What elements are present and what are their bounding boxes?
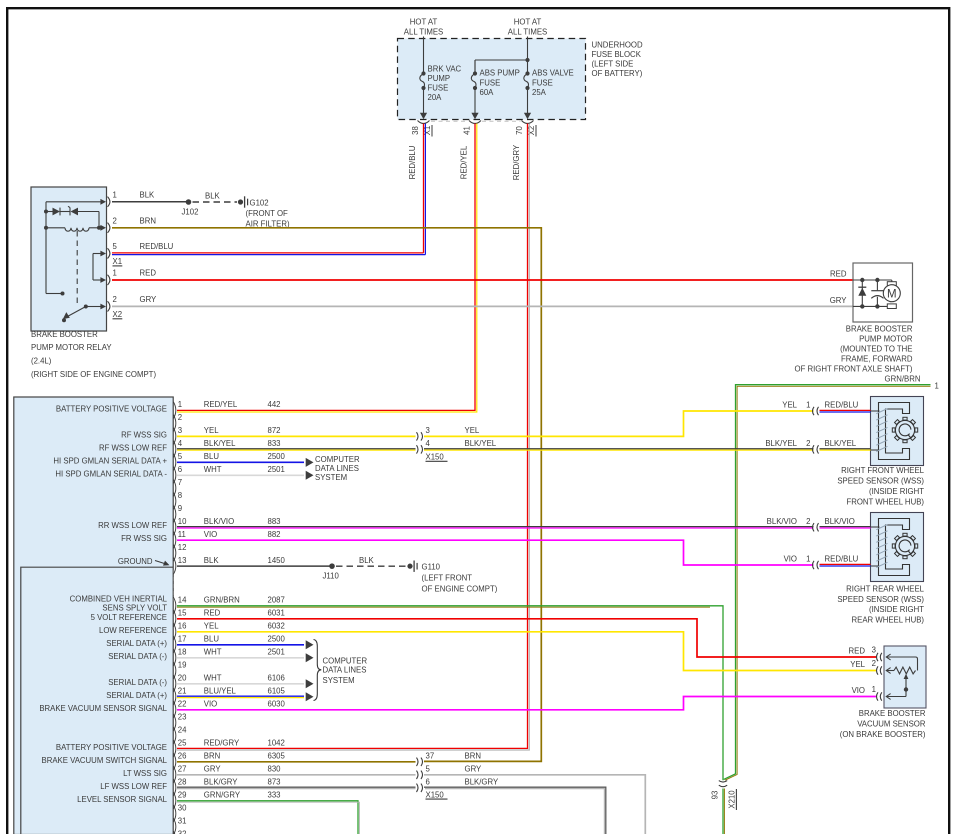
svg-text:27: 27 <box>178 765 187 774</box>
svg-text:(INSIDE RIGHT: (INSIDE RIGHT <box>869 605 924 614</box>
svg-text:RED/BLU: RED/BLU <box>140 242 174 251</box>
svg-text:BLK/YEL: BLK/YEL <box>765 439 797 448</box>
svg-text:6032: 6032 <box>268 622 285 631</box>
svg-text:7: 7 <box>178 478 182 487</box>
svg-text:X2: X2 <box>527 126 536 136</box>
svg-text:6: 6 <box>178 465 182 474</box>
module pin 19 <box>173 662 175 679</box>
svg-text:1: 1 <box>806 555 810 564</box>
svg-text:BLK/VIO: BLK/VIO <box>767 517 797 526</box>
svg-text:5: 5 <box>113 242 118 251</box>
svg-text:6031: 6031 <box>268 609 285 618</box>
svg-text:BLK: BLK <box>140 190 156 199</box>
wire RED/BLU connector to RF WSS <box>820 409 871 411</box>
svg-text:17: 17 <box>178 635 187 644</box>
svg-text:HOT AT: HOT AT <box>410 18 438 27</box>
svg-text:BLK/GRY: BLK/GRY <box>204 778 238 787</box>
svg-text:VACUUM SENSOR: VACUUM SENSOR <box>857 720 926 729</box>
svg-text:G110: G110 <box>422 563 441 572</box>
module pin 27 <box>173 766 175 783</box>
svg-text:OF RIGHT FRONT AXLE SHAFT): OF RIGHT FRONT AXLE SHAFT) <box>795 365 913 374</box>
computer data lines brace (lower) <box>314 640 322 701</box>
svg-text:4: 4 <box>178 439 183 448</box>
right front wheel speed sensor box <box>871 397 924 466</box>
pump motor diode <box>861 280 863 306</box>
svg-text:X1: X1 <box>423 126 432 136</box>
svg-text:VIO: VIO <box>204 700 217 709</box>
fuse block pin 38 X1 <box>418 121 430 124</box>
module pin 26 <box>173 753 175 770</box>
svg-text:BRK VAC: BRK VAC <box>428 64 462 73</box>
svg-text:(MOUNTED TO THE: (MOUNTED TO THE <box>840 345 912 354</box>
svg-text:BRAKE BOOSTER: BRAKE BOOSTER <box>31 330 98 339</box>
right rear wheel speed sensor box <box>871 513 924 582</box>
svg-text:1: 1 <box>113 269 117 278</box>
svg-text:(INSIDE RIGHT: (INSIDE RIGHT <box>869 487 924 496</box>
relay internal wire top (pin 1) <box>46 201 101 203</box>
svg-text:DATA LINES: DATA LINES <box>315 464 359 473</box>
svg-text:6106: 6106 <box>268 674 285 683</box>
module pin 22 <box>173 701 175 718</box>
module pin 13 <box>173 558 175 575</box>
svg-text:21: 21 <box>178 687 187 696</box>
svg-text:(LEFT FRONT: (LEFT FRONT <box>422 574 473 583</box>
svg-text:10: 10 <box>178 517 187 526</box>
wire BRN relay pin2 to X150 pin37 <box>112 228 541 762</box>
svg-text:VIO: VIO <box>204 530 217 539</box>
svg-text:333: 333 <box>268 791 281 800</box>
svg-text:2500: 2500 <box>268 635 286 644</box>
svg-text:SYSTEM: SYSTEM <box>315 473 347 482</box>
module pin 31 <box>173 818 175 835</box>
svg-text:22: 22 <box>178 700 187 709</box>
module pin 24 <box>173 727 175 744</box>
fuse block pin 41 <box>469 121 481 124</box>
svg-text:20A: 20A <box>428 93 443 102</box>
svg-text:16: 16 <box>178 622 187 631</box>
svg-text:FRONT WHEEL HUB): FRONT WHEEL HUB) <box>846 497 924 506</box>
svg-text:COMPUTER: COMPUTER <box>315 455 360 464</box>
svg-text:X150: X150 <box>426 790 445 799</box>
module inner box dashed edge <box>172 570 174 601</box>
svg-text:SPEED SENSOR (WSS): SPEED SENSOR (WSS) <box>837 477 924 486</box>
module pin 17 <box>173 636 175 653</box>
wire GRY relay X2-2 to pump motor <box>112 305 853 307</box>
wire BLK/YEL X150 to RF WSS <box>424 448 814 450</box>
svg-text:19: 19 <box>178 661 187 670</box>
svg-text:RIGHT FRONT WHEEL: RIGHT FRONT WHEEL <box>841 466 925 475</box>
svg-text:RED/YEL: RED/YEL <box>204 400 238 409</box>
svg-text:(LEFT SIDE: (LEFT SIDE <box>592 60 634 69</box>
svg-text:GRN/BRN: GRN/BRN <box>885 375 921 384</box>
svg-text:SENS SPLY VOLT: SENS SPLY VOLT <box>102 604 167 613</box>
svg-text:SYSTEM: SYSTEM <box>323 676 355 685</box>
svg-text:(FRONT OF: (FRONT OF <box>246 209 289 218</box>
svg-text:RED: RED <box>204 609 221 618</box>
pump motor capacitor <box>876 280 878 290</box>
svg-text:FR WSS SIG: FR WSS SIG <box>121 534 167 543</box>
svg-text:X150: X150 <box>426 453 445 462</box>
svg-text:RED/GRY: RED/GRY <box>512 144 521 180</box>
wire RED/BLU connector to RR WSS <box>820 563 871 565</box>
svg-text:RF WSS SIG: RF WSS SIG <box>121 430 167 439</box>
svg-text:BLK: BLK <box>204 556 220 565</box>
svg-text:5: 5 <box>426 765 431 774</box>
module pin 29 <box>173 792 175 809</box>
module pin 12 <box>173 545 175 562</box>
svg-text:2: 2 <box>178 413 182 422</box>
relay jumper pin5 to pinX2-1 <box>93 253 101 255</box>
fuse ABS VALVE FUSE 25A <box>527 37 529 74</box>
wire BLK/VIO connector to RR WSS <box>820 526 871 528</box>
RF WSS connector pin 2 <box>813 445 815 453</box>
svg-text:882: 882 <box>268 530 281 539</box>
svg-text:HI SPD GMLAN SERIAL DATA +: HI SPD GMLAN SERIAL DATA + <box>53 456 167 465</box>
svg-text:ABS PUMP: ABS PUMP <box>480 69 520 78</box>
svg-text:2: 2 <box>806 439 810 448</box>
svg-text:6: 6 <box>426 778 430 787</box>
svg-text:1: 1 <box>806 401 810 410</box>
module pin 16 <box>173 623 175 640</box>
svg-text:YEL: YEL <box>204 426 219 435</box>
ground G110 <box>407 564 412 569</box>
connector X150 pins 3,4 <box>417 432 419 440</box>
svg-text:VIO: VIO <box>784 555 797 564</box>
module inner box <box>21 567 173 834</box>
svg-text:YEL: YEL <box>204 622 219 631</box>
svg-text:1: 1 <box>113 190 117 199</box>
svg-text:PUMP MOTOR: PUMP MOTOR <box>859 335 913 344</box>
wire GRN/BRN below X210 <box>722 789 724 835</box>
svg-text:2501: 2501 <box>268 648 285 657</box>
module pin 6 <box>173 467 175 484</box>
svg-text:HOT AT: HOT AT <box>514 18 542 27</box>
svg-text:41: 41 <box>462 126 471 135</box>
svg-text:GRN/BRN: GRN/BRN <box>204 596 240 605</box>
module pin 23 <box>173 714 175 731</box>
svg-text:VIO: VIO <box>852 686 865 695</box>
svg-text:873: 873 <box>268 778 281 787</box>
module pin 4 <box>173 441 175 458</box>
svg-text:YEL: YEL <box>782 401 797 410</box>
svg-text:93: 93 <box>711 791 720 800</box>
svg-text:PUMP MOTOR RELAY: PUMP MOTOR RELAY <box>31 343 112 352</box>
svg-text:29: 29 <box>178 791 187 800</box>
wire WHT module pin 18 (computer data) <box>177 657 304 659</box>
svg-text:BLK/YEL: BLK/YEL <box>204 439 236 448</box>
svg-text:6105: 6105 <box>268 687 286 696</box>
pump motor box <box>853 263 913 322</box>
wire BLK/VIO module pin 10 to RR WSS <box>177 526 814 528</box>
svg-text:24: 24 <box>178 726 187 735</box>
fuse BRK VAC PUMP FUSE 20A <box>423 37 425 74</box>
svg-text:(ON BRAKE BOOSTER): (ON BRAKE BOOSTER) <box>840 730 926 739</box>
svg-text:RIGHT REAR WHEEL: RIGHT REAR WHEEL <box>846 584 924 593</box>
wire YEL X150 to RF WSS <box>424 411 814 436</box>
module pin 15 <box>173 610 175 627</box>
svg-text:OF ENGINE COMPT): OF ENGINE COMPT) <box>422 585 498 594</box>
svg-text:25: 25 <box>178 739 187 748</box>
svg-text:FUSE: FUSE <box>428 84 449 93</box>
wire BLK dashed to G110 <box>336 565 407 567</box>
svg-text:PUMP: PUMP <box>428 74 451 83</box>
svg-text:2500: 2500 <box>268 452 286 461</box>
svg-text:70: 70 <box>515 126 524 135</box>
relay coil <box>44 226 48 230</box>
module pin 30 <box>173 805 175 822</box>
wire WHT module pin 6 (computer data) <box>177 474 304 476</box>
module pin 7 <box>173 480 175 497</box>
svg-text:5 VOLT REFERENCE: 5 VOLT REFERENCE <box>91 613 167 622</box>
svg-text:2: 2 <box>872 659 876 668</box>
svg-text:3: 3 <box>178 426 182 435</box>
svg-text:GRY: GRY <box>140 295 158 304</box>
svg-text:BLU/YEL: BLU/YEL <box>204 687 237 696</box>
svg-text:LF WSS LOW REF: LF WSS LOW REF <box>100 782 167 791</box>
svg-text:BRAKE BOOSTER: BRAKE BOOSTER <box>859 709 926 718</box>
svg-text:SERIAL DATA (+): SERIAL DATA (+) <box>106 639 167 648</box>
module pin 28 <box>173 779 175 796</box>
svg-text:BLK/YEL: BLK/YEL <box>825 439 857 448</box>
svg-text:LEVEL SENSOR SIGNAL: LEVEL SENSOR SIGNAL <box>77 795 168 804</box>
wire GRN/BRN module pin 14 to X210 <box>177 606 723 780</box>
svg-text:FUSE: FUSE <box>480 78 501 87</box>
wire VIO module pin 22 to vacuum sensor pin1 <box>177 697 877 710</box>
module pin 18 <box>173 649 175 666</box>
svg-text:RED/BLU: RED/BLU <box>408 145 417 179</box>
svg-text:1042: 1042 <box>268 739 285 748</box>
svg-text:BRAKE VACUUM SENSOR SIGNAL: BRAKE VACUUM SENSOR SIGNAL <box>39 704 167 713</box>
svg-text:FUSE BLOCK: FUSE BLOCK <box>592 50 642 59</box>
svg-text:BATTERY POSITIVE VOLTAGE: BATTERY POSITIVE VOLTAGE <box>56 743 167 752</box>
svg-text:31: 31 <box>178 817 187 826</box>
svg-text:13: 13 <box>178 556 187 565</box>
wire RED module pin 15 to vacuum sensor pin3 <box>177 619 877 657</box>
svg-text:2501: 2501 <box>268 465 285 474</box>
svg-text:GRY: GRY <box>204 765 222 774</box>
svg-text:UNDERHOOD: UNDERHOOD <box>592 41 643 50</box>
connector X210 pin 93 <box>719 781 727 783</box>
svg-text:FRAME, FORWARD: FRAME, FORWARD <box>841 355 913 364</box>
module pin 32 <box>173 831 175 839</box>
svg-text:ALL TIMES: ALL TIMES <box>508 28 547 37</box>
svg-text:BLK: BLK <box>205 192 221 201</box>
svg-text:2: 2 <box>113 295 117 304</box>
pump motor rails <box>853 279 892 281</box>
svg-text:3: 3 <box>872 646 876 655</box>
wire RED/YEL fuse 41 to module pin 1 <box>177 124 475 411</box>
svg-text:YEL: YEL <box>850 660 865 669</box>
svg-text:SERIAL DATA (-): SERIAL DATA (-) <box>108 652 167 661</box>
svg-text:883: 883 <box>268 517 281 526</box>
svg-text:833: 833 <box>268 439 281 448</box>
svg-text:30: 30 <box>178 804 187 813</box>
module pin 20 <box>173 675 175 692</box>
svg-text:BRN: BRN <box>204 752 220 761</box>
wire BLU module pin 5 (computer data) <box>177 461 304 463</box>
svg-text:28: 28 <box>178 778 187 787</box>
module pin 14 <box>173 597 175 614</box>
svg-text:OF BATTERY): OF BATTERY) <box>592 69 643 78</box>
relay actuator dashed link <box>76 231 78 303</box>
module pin 10 <box>173 519 175 536</box>
svg-text:SERIAL DATA (+): SERIAL DATA (+) <box>106 691 167 700</box>
module pin 2 <box>173 415 175 432</box>
svg-text:GRN/GRY: GRN/GRY <box>204 791 241 800</box>
svg-text:11: 11 <box>178 530 186 539</box>
svg-text:BLU: BLU <box>204 635 220 644</box>
relay diode pair <box>44 210 48 214</box>
wire RED/GRY fuse 70 to module pin 25 <box>177 124 528 749</box>
svg-text:RED: RED <box>849 647 866 656</box>
relay box: brake booster pump motor relay <box>31 187 107 331</box>
svg-text:14: 14 <box>178 596 187 605</box>
svg-text:1: 1 <box>935 381 939 390</box>
svg-text:15: 15 <box>178 609 187 618</box>
svg-text:SPEED SENSOR (WSS): SPEED SENSOR (WSS) <box>837 595 924 604</box>
svg-text:ABS VALVE: ABS VALVE <box>532 69 574 78</box>
svg-text:5: 5 <box>178 452 183 461</box>
svg-text:LT WSS SIG: LT WSS SIG <box>123 769 167 778</box>
svg-text:LOW REFERENCE: LOW REFERENCE <box>99 626 167 635</box>
module pin 9 <box>173 506 175 523</box>
svg-text:BRN: BRN <box>140 216 156 225</box>
svg-text:COMPUTER: COMPUTER <box>323 656 368 665</box>
module pin 3 <box>173 428 175 445</box>
svg-text:ALL TIMES: ALL TIMES <box>404 28 443 37</box>
svg-text:FUSE: FUSE <box>532 78 553 87</box>
svg-text:RED/GRY: RED/GRY <box>204 739 240 748</box>
svg-text:BRN: BRN <box>465 752 481 761</box>
wire WHT module pin 20 (computer data) <box>177 683 304 685</box>
splice J110 <box>329 563 335 569</box>
ground G102 <box>238 199 243 204</box>
fuse block pin 70 X2 <box>522 121 534 124</box>
svg-text:RED: RED <box>830 270 847 279</box>
svg-text:RR WSS LOW REF: RR WSS LOW REF <box>98 521 167 530</box>
svg-text:37: 37 <box>426 752 435 761</box>
module pin 21 <box>173 688 175 705</box>
svg-text:RED/YEL: RED/YEL <box>459 145 468 179</box>
svg-text:SERIAL DATA (-): SERIAL DATA (-) <box>108 678 167 687</box>
svg-text:WHT: WHT <box>204 648 222 657</box>
svg-text:X2: X2 <box>113 310 123 319</box>
svg-text:BRAKE VACUUM SWITCH SIGNAL: BRAKE VACUUM SWITCH SIGNAL <box>42 756 168 765</box>
svg-text:RED: RED <box>140 269 157 278</box>
svg-text:REAR WHEEL HUB): REAR WHEEL HUB) <box>852 616 925 625</box>
svg-text:1450: 1450 <box>268 556 286 565</box>
svg-text:YEL: YEL <box>465 426 480 435</box>
svg-text:RED/BLU: RED/BLU <box>825 555 859 564</box>
svg-text:M: M <box>887 288 897 300</box>
underhood fuse block box <box>398 39 586 120</box>
svg-text:RED/BLU: RED/BLU <box>825 401 859 410</box>
connector X150 pins 37,5,6 <box>417 758 419 766</box>
relay pin brackets <box>108 197 110 207</box>
svg-text:X210: X210 <box>728 790 737 809</box>
wire YEL module pin 16 to vacuum sensor pin2 <box>177 632 877 671</box>
svg-text:442: 442 <box>268 400 281 409</box>
svg-text:GROUND: GROUND <box>118 557 153 566</box>
svg-text:872: 872 <box>268 426 281 435</box>
svg-text:4: 4 <box>426 439 431 448</box>
svg-text:X1: X1 <box>113 257 123 266</box>
svg-text:830: 830 <box>268 765 282 774</box>
svg-text:38: 38 <box>411 126 420 135</box>
module pin 11 <box>173 532 175 549</box>
wire VIO module pin 11 to RR WSS pin1 <box>177 540 814 565</box>
svg-text:COMBINED VEH INERTIAL: COMBINED VEH INERTIAL <box>70 595 168 604</box>
wire BLK relay pin1 to splice J102 <box>112 201 189 203</box>
relay switch <box>61 292 65 296</box>
wire BLU/YEL module pin 21 (computer data) <box>177 695 304 697</box>
svg-text:HI SPD GMLAN SERIAL DATA -: HI SPD GMLAN SERIAL DATA - <box>55 469 167 478</box>
svg-text:G102: G102 <box>250 199 269 208</box>
pump motor M symbol <box>887 282 896 287</box>
wire BLK dashed to G102 <box>193 201 238 203</box>
svg-text:26: 26 <box>178 752 187 761</box>
wire GRY module pin 27 to X150 pin5 and down <box>177 774 416 776</box>
svg-text:GRY: GRY <box>465 765 483 774</box>
module pin 8 <box>173 493 175 510</box>
svg-text:2: 2 <box>113 216 117 225</box>
RF WSS connector pin 1 <box>813 407 815 415</box>
vacuum sensor potentiometer <box>886 656 916 658</box>
svg-text:6030: 6030 <box>268 700 286 709</box>
wire RED/BLU fuse 38 to relay pin 5 <box>423 124 425 253</box>
svg-text:12: 12 <box>178 543 187 552</box>
svg-text:3: 3 <box>426 426 430 435</box>
RR WSS connector pin 2 <box>813 523 815 531</box>
svg-text:1: 1 <box>178 400 182 409</box>
splice J102 <box>186 199 192 205</box>
svg-text:BATTERY POSITIVE VOLTAGE: BATTERY POSITIVE VOLTAGE <box>56 404 167 413</box>
module pin 5 <box>173 454 175 471</box>
svg-text:BLU: BLU <box>204 452 220 461</box>
wire BLK/GRY module pin 28 to X150 pin6 and down <box>177 786 416 788</box>
svg-text:32: 32 <box>178 830 187 835</box>
svg-text:WHT: WHT <box>204 465 222 474</box>
svg-text:9: 9 <box>178 504 182 513</box>
svg-text:60A: 60A <box>480 88 495 97</box>
svg-text:2: 2 <box>806 517 810 526</box>
svg-text:RF WSS LOW REF: RF WSS LOW REF <box>99 443 167 452</box>
svg-text:GRY: GRY <box>830 296 848 305</box>
wire RED relay X2-1 to pump motor <box>112 279 853 281</box>
svg-text:8: 8 <box>178 491 182 500</box>
svg-text:J102: J102 <box>182 208 199 217</box>
svg-text:BLK/VIO: BLK/VIO <box>825 517 855 526</box>
svg-text:20: 20 <box>178 674 187 683</box>
svg-text:BLK/GRY: BLK/GRY <box>465 778 499 787</box>
svg-text:23: 23 <box>178 713 187 722</box>
wire BLU module pin 17 (computer data) <box>177 644 304 646</box>
svg-text:1: 1 <box>872 685 876 694</box>
svg-text:BLK: BLK <box>359 556 375 565</box>
RR WSS connector pin 1 <box>813 561 815 569</box>
wire GRN/GRY module pin 29 down at x=358 <box>177 801 358 835</box>
svg-text:BRAKE BOOSTER: BRAKE BOOSTER <box>846 325 913 334</box>
svg-text:BLK/YEL: BLK/YEL <box>465 439 497 448</box>
svg-text:2087: 2087 <box>268 596 285 605</box>
svg-text:(RIGHT SIDE OF ENGINE COMPT): (RIGHT SIDE OF ENGINE COMPT) <box>31 370 156 379</box>
brake booster vacuum sensor box <box>884 646 926 708</box>
svg-text:BLK/VIO: BLK/VIO <box>204 517 234 526</box>
wire YEL module pin 3 to X150 <box>177 435 416 437</box>
wire BLK/YEL module pin 4 to X150 <box>177 448 416 450</box>
svg-text:(2.4L): (2.4L) <box>31 357 52 366</box>
vacuum sensor connector pins 3,2,1 <box>877 653 879 661</box>
